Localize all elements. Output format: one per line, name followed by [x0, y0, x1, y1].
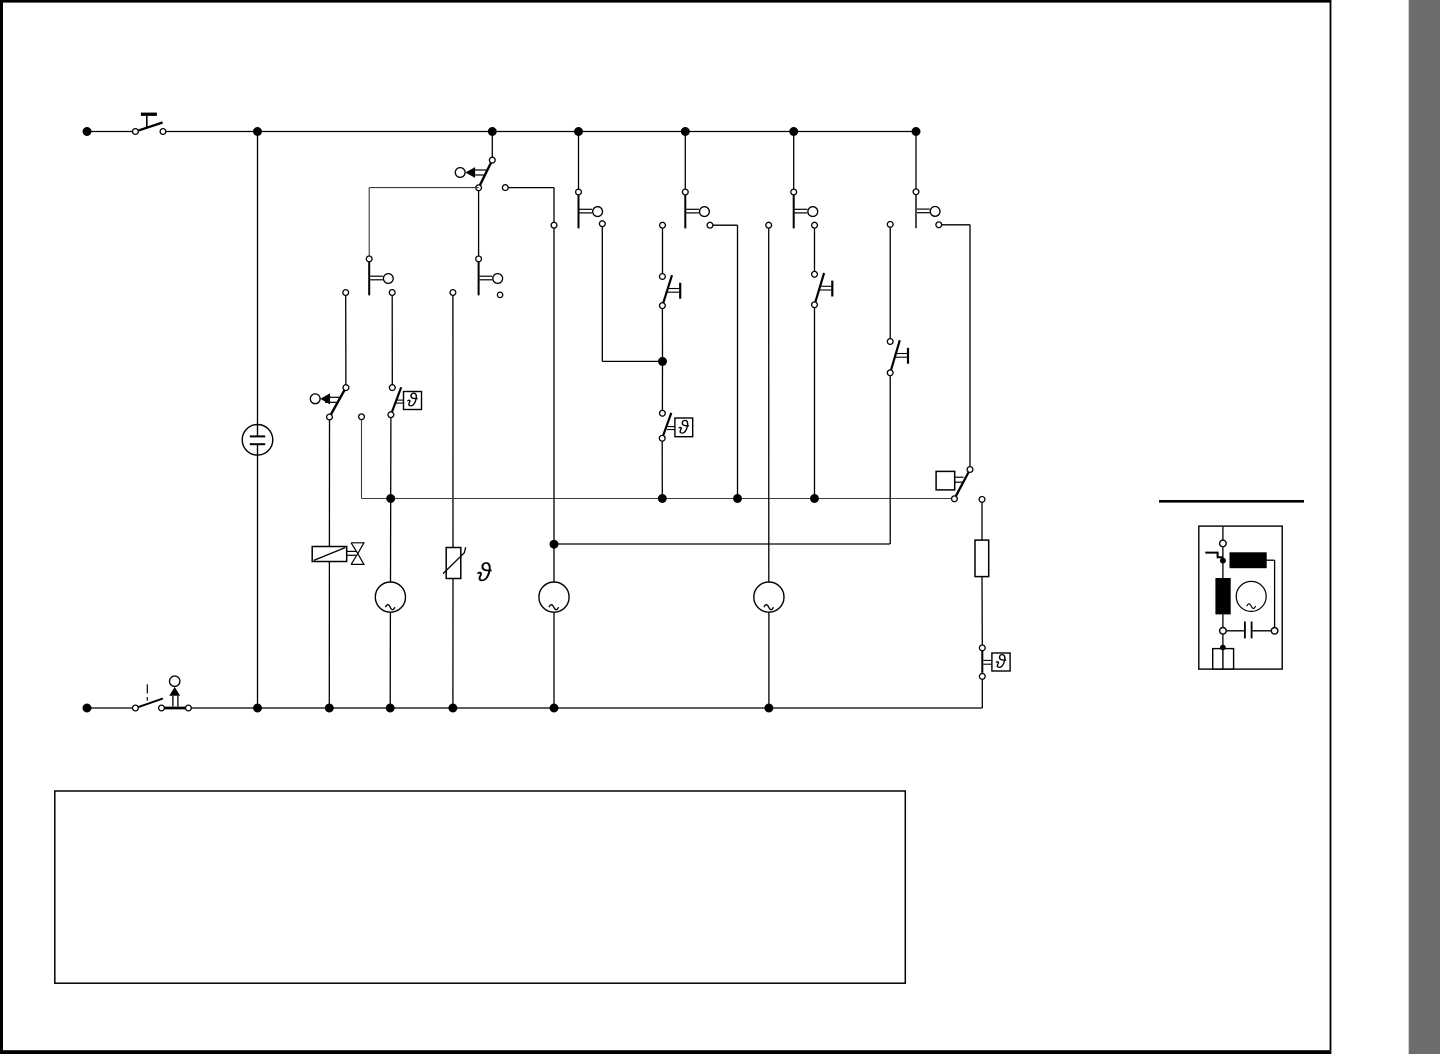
switch S7 (door contact)	[913, 189, 940, 228]
switch B2 (thermostat contact)	[310, 385, 348, 420]
switch F4 (thermal cut-out with sensor)	[979, 645, 1010, 679]
junction	[550, 704, 559, 713]
plug connector X1	[164, 676, 191, 711]
wire	[768, 612, 770, 708]
label theta	[477, 562, 492, 581]
switch S4 (door contact)	[576, 189, 603, 228]
junction	[574, 127, 583, 136]
wire	[1222, 547, 1224, 579]
wire	[662, 228, 664, 274]
junction	[1220, 645, 1226, 651]
junction	[658, 357, 667, 366]
switch S8 (interlock contact)	[133, 684, 165, 711]
solenoid valve Y1	[312, 543, 364, 565]
pin	[1271, 628, 1278, 635]
starter glow bottle	[1215, 578, 1230, 614]
lamp E4 (fluorescent tube)	[1236, 581, 1266, 611]
wire	[328, 420, 330, 547]
wire	[553, 188, 555, 223]
wire	[361, 420, 363, 499]
junction	[681, 127, 690, 136]
wire	[491, 132, 493, 159]
wire	[553, 228, 555, 582]
node L (phase terminal)	[83, 127, 92, 136]
pin	[766, 222, 772, 228]
wire	[981, 679, 983, 708]
lamp E2	[539, 582, 569, 612]
pin	[660, 222, 666, 228]
junction	[764, 704, 773, 713]
pin	[887, 222, 893, 228]
wire	[601, 227, 603, 362]
node N (neutral terminal)	[83, 704, 92, 713]
wire	[554, 543, 890, 545]
notes box	[55, 791, 906, 983]
wire	[452, 295, 454, 547]
wire	[602, 360, 662, 362]
wire	[1222, 634, 1224, 645]
junction	[386, 704, 395, 713]
node (contact N.O. side)	[502, 185, 508, 191]
ballast choke L1	[1230, 552, 1267, 568]
switch S5 (door contact)	[682, 189, 709, 228]
wire	[87, 707, 133, 709]
starter switch contact	[1205, 553, 1223, 558]
lamp E3	[754, 582, 784, 612]
wire	[814, 308, 816, 499]
switch B1 (thermostat contact)	[455, 157, 495, 191]
lamp unit detail box	[1199, 526, 1282, 669]
junction	[789, 127, 798, 136]
wire	[257, 455, 259, 708]
wire	[390, 418, 392, 496]
resistor R2	[975, 540, 989, 577]
junction	[658, 494, 667, 503]
wire	[553, 612, 555, 708]
wire	[661, 441, 663, 498]
wire	[1274, 560, 1276, 627]
wire	[1267, 559, 1275, 561]
pin	[1220, 628, 1227, 635]
wire	[661, 309, 663, 362]
junction	[386, 494, 395, 503]
wire	[390, 499, 392, 583]
wire	[508, 187, 554, 189]
wire	[713, 224, 738, 226]
junction	[810, 494, 819, 503]
node (unused terminal)	[497, 292, 502, 297]
pin	[359, 414, 365, 420]
pin	[707, 222, 713, 228]
switch F1 (thermal limiter contact)	[660, 274, 681, 309]
switch B3 (thermostat contact with sensor)	[388, 385, 422, 418]
wire	[737, 225, 739, 498]
capacitor C2	[1226, 622, 1271, 639]
wire	[661, 361, 663, 410]
wire	[889, 227, 891, 338]
lamp E1 (oven lamp)	[375, 582, 405, 612]
wire	[1222, 614, 1224, 627]
wire	[768, 228, 770, 582]
wire	[478, 191, 480, 256]
wire	[369, 187, 478, 189]
switch F2 (thermal limiter contact)	[812, 271, 833, 307]
pin	[389, 290, 395, 296]
junction	[325, 704, 334, 713]
switch B4 (thermostat contact with sensor)	[659, 410, 692, 441]
wire (top supply bus)	[166, 131, 916, 133]
wire	[368, 188, 370, 257]
switch F3 (thermal limiter contact)	[887, 339, 908, 376]
pin	[936, 222, 942, 228]
wire (bottom return bus)	[191, 707, 982, 709]
junction	[733, 494, 742, 503]
wire	[969, 225, 971, 467]
capacitor C1 (interference suppressor)	[242, 425, 273, 456]
wire	[981, 577, 983, 645]
switch S1 (mains push-button)	[133, 113, 166, 135]
pin	[551, 222, 557, 228]
wire	[814, 228, 816, 271]
switch S3 (door contact)	[476, 256, 503, 295]
switch S2 (door contact, lamp circuit)	[366, 256, 393, 295]
pin	[450, 290, 456, 296]
wire	[87, 131, 132, 133]
lamp base	[1213, 649, 1234, 670]
wire	[1222, 527, 1224, 541]
wire	[684, 132, 686, 190]
wire	[391, 295, 393, 384]
pin	[1220, 540, 1227, 547]
junction	[550, 540, 559, 549]
wire	[328, 562, 330, 709]
wire	[915, 132, 917, 189]
switch K1 (relay contact with drive box)	[936, 467, 973, 502]
wire	[942, 224, 970, 226]
junction	[253, 127, 262, 136]
junction	[448, 704, 457, 713]
switch S6 (door contact)	[791, 189, 818, 228]
pin	[343, 290, 349, 296]
wire	[452, 579, 454, 709]
junction	[912, 127, 921, 136]
wire	[793, 132, 795, 190]
wire	[389, 612, 391, 708]
thermistor R1 (PTC)	[443, 547, 466, 578]
pin	[979, 497, 985, 503]
pin	[812, 222, 818, 228]
junction	[1220, 558, 1226, 564]
wire	[981, 502, 983, 540]
junction	[253, 704, 262, 713]
wire	[257, 132, 259, 425]
separator line	[1159, 500, 1304, 503]
wire	[345, 295, 347, 384]
wire	[578, 132, 580, 190]
pin	[599, 221, 605, 227]
wire	[889, 376, 891, 544]
junction	[488, 127, 497, 136]
wire (control line)	[362, 498, 955, 500]
